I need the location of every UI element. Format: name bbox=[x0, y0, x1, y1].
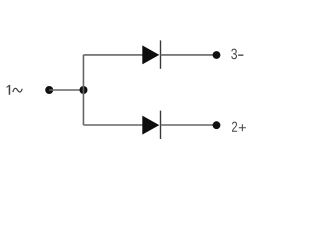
AC tilde symbol bbox=[13, 88, 22, 92]
terminal 1 (input dot) bbox=[45, 86, 53, 94]
junction node bbox=[80, 86, 88, 94]
label 1 (AC input terminal number) bbox=[7, 85, 11, 95]
minus dash of label 3- bbox=[238, 55, 243, 56]
wire bottom rail to diode anode bbox=[83, 124, 142, 126]
diode top cathode bar bbox=[160, 40, 162, 68]
diode top (anode triangle) bbox=[142, 45, 159, 64]
diode bottom (anode triangle) bbox=[142, 116, 159, 135]
wire terminal1 to junction bbox=[49, 89, 83, 91]
terminal 2 (output dot) bbox=[213, 121, 221, 129]
label 2 bbox=[232, 122, 237, 132]
wire vertical branch bbox=[82, 55, 84, 125]
diode bottom cathode bar bbox=[160, 111, 162, 139]
terminal 3 (output dot) bbox=[213, 51, 221, 59]
label 3 bbox=[231, 49, 237, 60]
wire top rail to diode anode bbox=[83, 54, 142, 56]
wire diode bottom to terminal 2 bbox=[161, 124, 214, 126]
plus sign of label 2+ bbox=[239, 124, 246, 131]
wire diode top to terminal 3 bbox=[161, 54, 214, 56]
